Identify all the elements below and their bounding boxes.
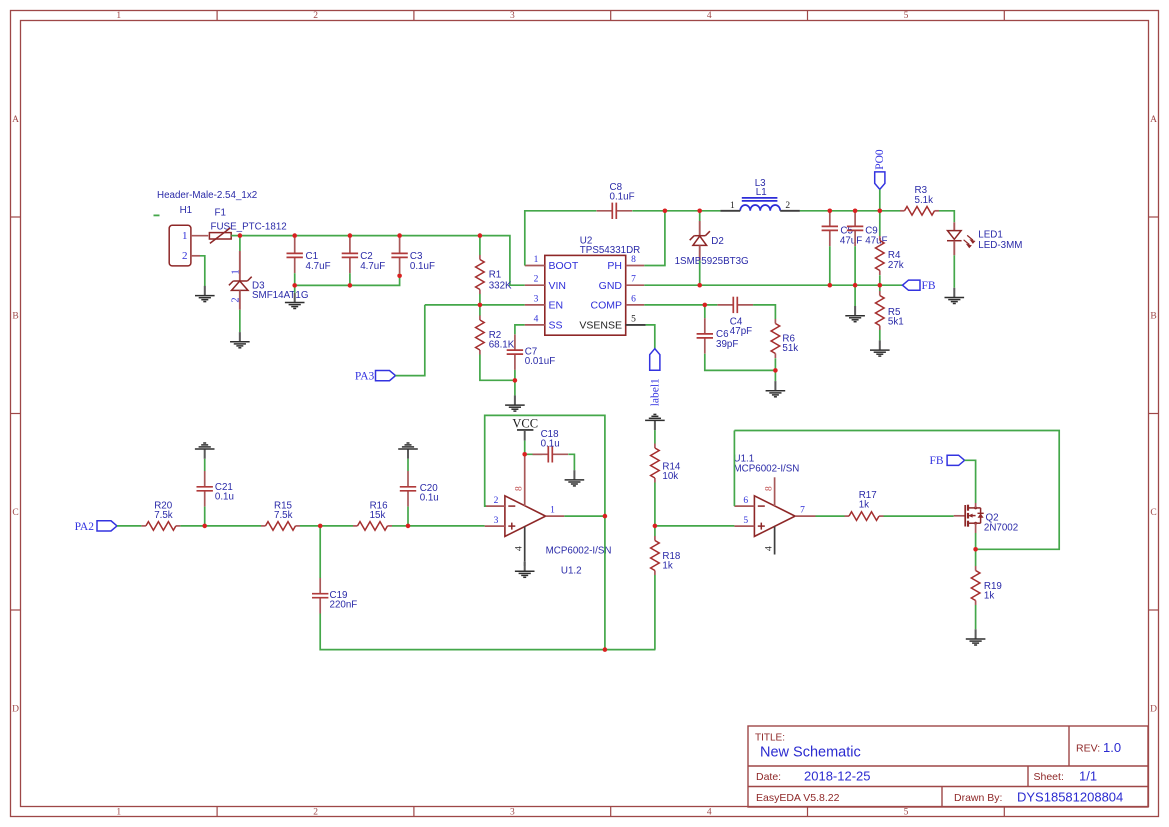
wire pin6 riser	[733, 431, 735, 507]
wire D2 to GND rail	[699, 261, 701, 286]
svg-text:FB: FB	[930, 455, 944, 467]
svg-text:4: 4	[515, 546, 525, 551]
svg-text:5: 5	[743, 516, 748, 526]
ground	[285, 293, 305, 309]
ground	[505, 395, 525, 411]
op-amp U1.1	[754, 496, 795, 537]
svg-text:5.1k: 5.1k	[915, 195, 934, 206]
svg-text:47pF: 47pF	[730, 326, 752, 337]
svg-text:label1: label1	[649, 378, 661, 406]
capacitor C5	[822, 211, 838, 247]
ground	[966, 629, 986, 645]
pin 3 EN	[525, 304, 545, 306]
node C7 ground junction	[513, 378, 518, 383]
wire C21 to ground	[204, 459, 206, 471]
capacitor C8	[597, 203, 633, 219]
node C5 top	[828, 209, 833, 214]
svg-text:LED1: LED1	[978, 230, 1003, 241]
svg-text:6: 6	[631, 294, 636, 304]
svg-text:1SMB5925BT3G: 1SMB5925BT3G	[675, 256, 749, 267]
resistor R20	[141, 522, 180, 531]
wire R15 to node	[300, 525, 320, 527]
wire top rail	[240, 236, 525, 286]
wire C1 stub	[294, 273, 296, 285]
svg-text:0.1u: 0.1u	[420, 492, 439, 503]
node C9 top	[853, 209, 858, 214]
wire R17 to Q2 gate	[884, 515, 954, 517]
node D2 top	[697, 209, 702, 214]
wire R1 bottom	[479, 294, 481, 305]
svg-text:1: 1	[550, 506, 555, 516]
ground	[870, 340, 890, 356]
ground	[766, 381, 786, 397]
wire R6 bottom	[774, 358, 776, 370]
svg-text:5k1: 5k1	[888, 317, 904, 328]
svg-text:2018-12-25: 2018-12-25	[804, 769, 871, 784]
svg-text:COMP: COMP	[591, 300, 623, 312]
wire output to bottom rail	[604, 516, 606, 650]
svg-text:8: 8	[515, 486, 525, 491]
ground above C20	[398, 443, 418, 459]
svg-text:0.1uF: 0.1uF	[410, 261, 435, 272]
svg-text:Sheet:: Sheet:	[1034, 771, 1064, 783]
wire divider to pin5	[655, 525, 735, 527]
wire C18 to ground	[568, 454, 574, 470]
port FB	[903, 280, 921, 290]
pin 4 SS	[525, 324, 545, 326]
ground	[230, 332, 250, 348]
svg-text:3: 3	[510, 11, 515, 21]
svg-text:SMF14AT1G: SMF14AT1G	[252, 290, 308, 301]
pin 2 of H1	[191, 255, 200, 257]
wire C3 stub	[399, 273, 401, 276]
wire L1 to output rail	[800, 210, 900, 212]
wire capacitor bottom rail	[295, 276, 400, 286]
node C5 bottom	[828, 283, 833, 288]
svg-text:2: 2	[182, 250, 188, 262]
svg-text:EN: EN	[549, 300, 564, 312]
title block	[748, 726, 1148, 807]
pin 8 of U1.2	[524, 454, 526, 506]
port PO0	[875, 172, 885, 190]
node C19	[318, 524, 323, 529]
node C1 bottom	[292, 283, 297, 288]
svg-text:7.5k: 7.5k	[154, 510, 173, 521]
svg-text:27k: 27k	[888, 260, 904, 271]
svg-text:4.7uF: 4.7uF	[306, 261, 331, 272]
svg-text:15k: 15k	[370, 510, 386, 521]
svg-text:7: 7	[800, 506, 805, 516]
node U1.2 output	[603, 514, 608, 519]
node C20	[406, 524, 411, 529]
svg-text:REV:: REV:	[1076, 743, 1100, 755]
svg-text:A: A	[1150, 115, 1157, 125]
node fuse output	[238, 233, 243, 238]
node C3 top	[397, 233, 402, 238]
svg-text:2N7002: 2N7002	[984, 522, 1018, 533]
resistor R16	[353, 522, 392, 531]
resistor R1	[476, 255, 485, 294]
svg-text:1: 1	[231, 269, 242, 274]
svg-text:5: 5	[631, 314, 636, 324]
svg-text:0.1u: 0.1u	[541, 439, 560, 450]
pin 6 of U1.1	[734, 505, 754, 507]
svg-text:PO0: PO0	[874, 149, 886, 170]
header H1	[169, 225, 191, 266]
wire R19 to ground	[975, 605, 977, 629]
node C21	[202, 524, 207, 529]
node R1 bottom	[478, 303, 483, 308]
resistor R17	[845, 512, 884, 521]
wire LED to ground	[953, 255, 955, 287]
wire C6 bottom	[705, 354, 776, 371]
svg-text:New Schematic: New Schematic	[760, 745, 861, 761]
pin 3 of U1.2	[485, 525, 505, 527]
svg-text:MCP6002-I/SN: MCP6002-I/SN	[734, 464, 800, 475]
wire R3 to LED	[939, 211, 954, 223]
svg-text:PA2: PA2	[75, 521, 95, 533]
node PO0	[878, 209, 883, 214]
node C1 top	[292, 233, 297, 238]
svg-text:47uF: 47uF	[840, 235, 862, 246]
capacitor C20	[400, 471, 416, 507]
capacitor C19	[312, 578, 328, 614]
svg-text:TITLE:: TITLE:	[755, 733, 785, 744]
svg-text:2: 2	[785, 201, 790, 211]
svg-text:B: B	[1150, 312, 1156, 322]
capacitor C6	[697, 318, 713, 354]
pin 7 of U1.1 output	[795, 515, 815, 517]
wire C5 bottom	[829, 246, 831, 285]
wire R2 bottom	[480, 355, 515, 381]
wire output to R17	[816, 515, 845, 517]
wire C7 to junction	[514, 370, 516, 380]
wire COMP net	[644, 304, 717, 306]
svg-text:DYS18581208804: DYS18581208804	[1017, 790, 1123, 805]
pin 4 of U1.2	[524, 527, 526, 562]
svg-text:B: B	[12, 312, 18, 322]
svg-text:6: 6	[743, 496, 748, 506]
svg-text:1: 1	[116, 808, 121, 818]
svg-text:7.5k: 7.5k	[274, 510, 293, 521]
wire VCC to C18	[525, 453, 543, 455]
wire D3 to ground	[239, 310, 241, 332]
wire R18 bottom	[654, 575, 656, 650]
pin 2 of U1.2	[485, 505, 505, 507]
pin 1 BOOT	[525, 265, 545, 267]
pin 1 of H1	[191, 235, 208, 237]
wire C4 to R6	[753, 305, 775, 319]
ground	[845, 306, 865, 322]
node FB divider	[878, 283, 883, 288]
svg-text:1: 1	[182, 230, 188, 242]
capacitor C2	[342, 238, 358, 274]
capacitor C9	[847, 211, 863, 247]
wire C19 top	[319, 526, 321, 578]
wire pin4 to ground	[524, 561, 526, 566]
svg-text:4: 4	[707, 808, 712, 818]
svg-text:1k: 1k	[984, 590, 994, 601]
wire R4 top	[879, 211, 881, 236]
wire C1 to ground	[294, 285, 296, 292]
wire R1 top	[479, 236, 481, 256]
diode D2 wire top	[699, 211, 701, 221]
svg-text:8: 8	[765, 486, 775, 491]
svg-text:1/1: 1/1	[1079, 769, 1097, 784]
wire R16 to node	[392, 525, 408, 527]
wire C9 bottom	[854, 246, 856, 285]
resistor R6	[771, 319, 780, 358]
svg-text:4: 4	[764, 546, 774, 551]
wire BOOT to C8	[525, 211, 597, 266]
svg-text:F1: F1	[215, 208, 226, 219]
svg-text:VIN: VIN	[549, 280, 567, 292]
ground	[565, 470, 585, 486]
capacitor C3	[391, 238, 407, 274]
svg-text:2: 2	[313, 808, 318, 818]
node C9 bottom	[853, 283, 858, 288]
svg-text:0.01uF: 0.01uF	[525, 356, 556, 367]
ground above C21	[195, 443, 215, 459]
wire H1 pin2 to ground	[200, 256, 205, 286]
capacitor C18	[533, 446, 569, 462]
wire R5 to ground	[879, 330, 881, 340]
svg-text:1k: 1k	[662, 561, 672, 572]
wire to ground	[774, 370, 776, 381]
svg-text:Drawn By:: Drawn By:	[954, 792, 1002, 804]
port label1	[650, 349, 660, 371]
ground	[515, 562, 535, 578]
svg-text:1: 1	[116, 11, 121, 21]
resistor R2	[476, 316, 485, 355]
wire node to R15	[205, 525, 261, 527]
svg-text:5: 5	[904, 808, 909, 818]
svg-text:68.1K: 68.1K	[489, 340, 515, 351]
wire GND rail	[644, 284, 880, 286]
net stub	[154, 214, 160, 216]
svg-text:51k: 51k	[782, 343, 798, 354]
svg-text:D: D	[1150, 705, 1157, 715]
wire feedback box right	[734, 431, 1059, 550]
diode D3	[239, 251, 241, 281]
wire output	[564, 515, 605, 517]
svg-text:LED-3MM: LED-3MM	[978, 240, 1022, 251]
resistor R4	[876, 236, 885, 275]
node Q2 source	[973, 547, 978, 552]
wire VSENSE to label1	[626, 324, 646, 326]
wire R14 top to ground	[654, 430, 656, 443]
wire FB to Q2 drain	[965, 460, 976, 503]
node C2 bottom	[348, 283, 353, 288]
node divider	[653, 524, 658, 529]
wire C20 up	[407, 507, 409, 526]
svg-text:A: A	[12, 115, 19, 125]
svg-text:4: 4	[707, 11, 712, 21]
svg-text:2: 2	[494, 496, 499, 506]
svg-text:2: 2	[534, 275, 539, 285]
svg-text:8: 8	[631, 255, 636, 265]
LED LED1	[953, 222, 955, 230]
pin 5 of U1.1	[734, 525, 754, 527]
svg-text:D: D	[12, 705, 19, 715]
wire feedback box	[485, 415, 605, 516]
node bottom rail	[603, 647, 608, 652]
wire C2 stub	[349, 273, 351, 285]
svg-text:Date:: Date:	[756, 771, 781, 783]
wire FB to port	[880, 284, 903, 286]
resistor R14	[651, 444, 660, 483]
svg-text:D2: D2	[711, 236, 724, 247]
capacitor C1	[287, 238, 303, 274]
wire R2 top	[479, 305, 481, 316]
svg-text:EasyEDA V5.8.22: EasyEDA V5.8.22	[756, 792, 840, 804]
pin 2 of L1	[780, 210, 800, 212]
diode D2	[699, 221, 701, 236]
wire EN net	[425, 304, 525, 306]
svg-text:5: 5	[904, 11, 909, 21]
diode D3 wire	[239, 236, 241, 251]
svg-text:VCC: VCC	[512, 417, 538, 431]
wire PO0 to rail	[879, 189, 881, 210]
wire Q2 source to node	[975, 533, 977, 549]
wire C21 up	[204, 507, 206, 526]
svg-text:220nF: 220nF	[330, 600, 358, 611]
ground	[945, 288, 965, 304]
pin 2 VIN	[525, 284, 545, 286]
ground	[195, 286, 215, 302]
pin 1 of U1.2 output	[546, 515, 565, 517]
wire PH riser	[644, 211, 665, 266]
node C3 bottom	[397, 274, 402, 279]
resistor R15	[261, 522, 300, 531]
pin 8 PH	[626, 265, 645, 267]
capacitor C4	[718, 297, 754, 313]
node R1 top	[478, 233, 483, 238]
svg-text:PH: PH	[607, 260, 622, 272]
svg-text:1: 1	[534, 255, 539, 265]
svg-text:1k: 1k	[859, 500, 869, 511]
svg-text:3: 3	[494, 516, 499, 526]
op-amp U1.2	[505, 496, 546, 537]
svg-text:MCP6002-I/SN: MCP6002-I/SN	[546, 545, 612, 556]
pin 5 VSENSE	[626, 324, 646, 326]
svg-text:H1: H1	[180, 205, 193, 216]
wire R14 bottom	[654, 483, 656, 526]
resistor R3	[900, 207, 939, 216]
pin 7 GND	[626, 284, 645, 286]
wire C19 bottom to rail	[320, 614, 655, 650]
svg-text:FUSE_PTC-1812: FUSE_PTC-1812	[211, 221, 287, 232]
wire C6 top	[704, 305, 706, 318]
svg-text:39pF: 39pF	[716, 339, 738, 350]
svg-text:1.0: 1.0	[1103, 740, 1121, 755]
node C2 top	[348, 233, 353, 238]
svg-text:C: C	[1150, 508, 1156, 518]
pin 1 of L1	[720, 210, 740, 212]
svg-text:Header-Male-2.54_1x2: Header-Male-2.54_1x2	[157, 190, 257, 201]
IC U2 body	[545, 255, 626, 335]
svg-text:SS: SS	[549, 320, 563, 332]
svg-text:BOOT: BOOT	[549, 260, 579, 272]
svg-text:PA3: PA3	[355, 371, 375, 383]
node PH riser	[663, 209, 668, 214]
wire R18 top	[654, 526, 656, 536]
svg-text:4: 4	[534, 314, 539, 324]
svg-text:2: 2	[313, 11, 318, 21]
svg-text:1: 1	[730, 201, 735, 211]
node C6 top	[703, 303, 708, 308]
wire to ground	[514, 380, 516, 395]
pin 6 COMP	[626, 304, 645, 306]
wire R4 bottom	[879, 275, 881, 285]
svg-text:2: 2	[231, 297, 242, 302]
svg-text:10k: 10k	[662, 471, 678, 482]
pin 4 of U1.1	[774, 527, 776, 555]
resistor R19	[971, 566, 980, 605]
node D2 bottom	[697, 283, 702, 288]
svg-text:332K: 332K	[489, 281, 512, 292]
node R6 bottom	[773, 368, 778, 373]
wire C20 to ground	[407, 459, 409, 471]
wire PA3 to EN	[396, 305, 425, 376]
wire fuse to rail	[231, 235, 240, 237]
pin 8 of U1.1	[774, 477, 776, 506]
svg-text:VSENSE: VSENSE	[579, 320, 622, 332]
svg-text:L1: L1	[756, 187, 767, 198]
wire node to opamp pin3	[408, 525, 485, 527]
wire R5 top	[879, 285, 881, 291]
svg-text:0.1uF: 0.1uF	[610, 192, 635, 203]
capacitor C7	[507, 334, 523, 370]
svg-text:3: 3	[510, 808, 515, 818]
svg-text:U1.2: U1.2	[561, 566, 582, 577]
svg-text:0.1u: 0.1u	[215, 492, 234, 503]
wire C8 to PH node	[632, 210, 720, 212]
resistor R5	[876, 291, 885, 330]
wire SS to C7	[515, 325, 525, 334]
wire R20 to node	[180, 525, 204, 527]
node VCC	[522, 452, 527, 457]
wire PA2 to R20	[117, 525, 141, 527]
svg-text:GND: GND	[599, 280, 623, 292]
svg-text:3: 3	[534, 294, 539, 304]
wire node to R16	[320, 525, 353, 527]
transistor Q2	[954, 515, 966, 517]
svg-text:7: 7	[631, 275, 636, 285]
svg-text:R1: R1	[489, 269, 502, 280]
resistor R18	[651, 536, 660, 575]
wire R19 top	[975, 549, 977, 566]
svg-text:47uF: 47uF	[865, 235, 887, 246]
ground above R14	[645, 414, 665, 430]
svg-text:FB: FB	[922, 280, 936, 292]
svg-text:C: C	[12, 508, 18, 518]
wire C9 to ground	[854, 285, 856, 306]
capacitor C21	[197, 471, 213, 507]
svg-text:4.7uF: 4.7uF	[360, 261, 385, 272]
